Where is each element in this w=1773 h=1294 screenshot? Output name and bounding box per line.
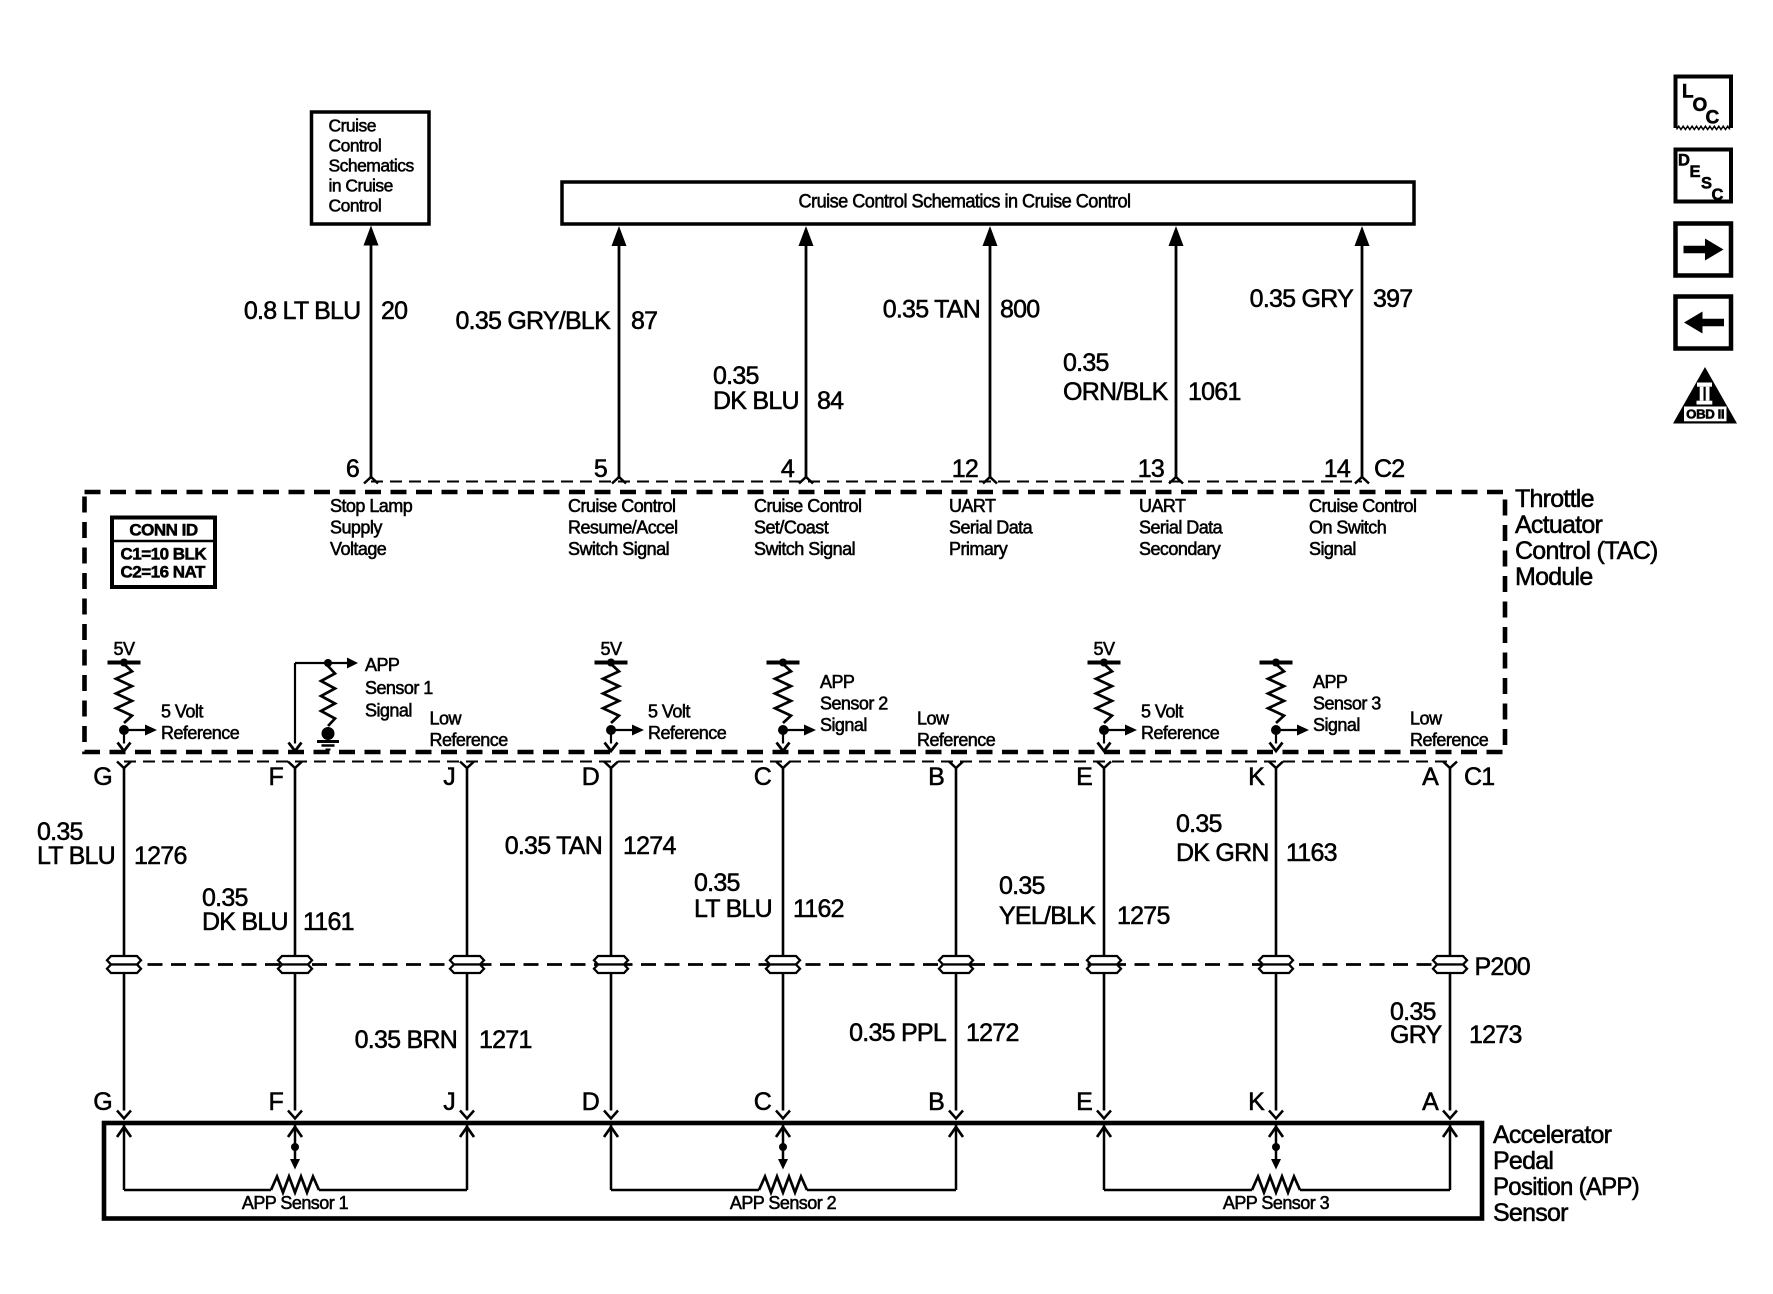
svg-text:0.35 GRY: 0.35 GRY — [1250, 285, 1354, 313]
svg-text:G: G — [93, 1088, 112, 1116]
svg-text:APP Sensor 3: APP Sensor 3 — [1223, 1193, 1330, 1213]
svg-text:in Cruise: in Cruise — [329, 176, 393, 196]
svg-text:Control: Control — [329, 136, 382, 156]
pin 6 function label: Stop Lamp Supply Voltage — [330, 496, 413, 559]
label: Low Reference (pin J) — [430, 709, 509, 751]
label: Low Reference (pin B) — [917, 709, 996, 751]
svg-text:Sensor 2: Sensor 2 — [820, 694, 888, 714]
svg-text:B: B — [928, 763, 944, 791]
svg-text:5V: 5V — [601, 639, 622, 659]
svg-text:A: A — [1422, 763, 1439, 791]
wire circuit 87 (0.35 GRY/BLK) pin 5 — [455, 226, 657, 484]
pin F fork (connector C1) — [288, 762, 302, 769]
connector C1 line (thin dashed) — [124, 761, 1450, 763]
resistor network: APP Sensor 3 Signal (internal) — [1260, 659, 1382, 752]
svg-text:On Switch: On Switch — [1309, 518, 1386, 538]
svg-text:6: 6 — [346, 455, 359, 483]
svg-text:Reference: Reference — [161, 723, 240, 743]
svg-text:5V: 5V — [1094, 639, 1115, 659]
svg-text:1163: 1163 — [1286, 839, 1337, 867]
svg-text:OBD II: OBD II — [1686, 408, 1724, 422]
svg-text:Reference: Reference — [1410, 730, 1489, 750]
wire circuit 1273 (0.35 GRY) pin A — [1390, 768, 1522, 1111]
svg-text:Signal: Signal — [1313, 715, 1360, 735]
icon: OBD II symbol (triangle with pillar) — [1673, 367, 1737, 424]
svg-text:APP: APP — [365, 655, 400, 675]
svg-text:S: S — [1701, 175, 1712, 193]
svg-text:F: F — [268, 763, 283, 791]
pin G fork (APP sensor connector) — [117, 1111, 131, 1119]
svg-text:397: 397 — [1373, 285, 1412, 313]
wire circuit 1161 (0.35 DK BLU) pin F — [202, 768, 354, 1111]
svg-text:1271: 1271 — [479, 1026, 532, 1054]
connector C2 line (thin dashed) — [371, 481, 1362, 483]
svg-text:F: F — [268, 1088, 283, 1116]
svg-text:Resume/Accel: Resume/Accel — [568, 518, 678, 538]
pin E fork (APP sensor connector) — [1097, 1111, 1111, 1119]
P200 in-line connector symbol on wire G — [107, 956, 141, 973]
pin B fork (APP sensor connector) — [949, 1111, 963, 1119]
resistor network: 5 Volt Reference pull-up (pin D) — [595, 639, 727, 751]
svg-text:DK BLU: DK BLU — [202, 908, 288, 936]
svg-text:C: C — [754, 763, 772, 791]
svg-text:C: C — [1712, 186, 1724, 204]
icon: DESC navigation box — [1676, 150, 1732, 205]
svg-text:Reference: Reference — [648, 723, 727, 743]
pin 14 function label: Cruise Control On Switch Signal — [1309, 496, 1416, 559]
pin A fork (APP sensor connector) — [1443, 1111, 1457, 1119]
APP Sensor 3 potentiometer — [1097, 1125, 1457, 1213]
svg-text:LT BLU: LT BLU — [37, 842, 115, 870]
svg-text:A: A — [1422, 1088, 1439, 1116]
svg-text:Secondary: Secondary — [1139, 539, 1221, 559]
svg-text:87: 87 — [631, 307, 657, 335]
svg-text:J: J — [443, 1088, 455, 1116]
icon: forward arrow box — [1676, 224, 1732, 276]
svg-text:Set/Coast: Set/Coast — [754, 518, 829, 538]
pass-through connector P200 (dashed line) — [124, 963, 1450, 966]
pin 5 function label: Cruise Control Resume/Accel Switch Signal — [568, 496, 678, 559]
svg-text:0.35 BRN: 0.35 BRN — [355, 1026, 457, 1054]
svg-text:D: D — [1678, 152, 1690, 170]
svg-text:Control: Control — [329, 196, 382, 216]
P200 in-line connector symbol on wire A — [1433, 956, 1467, 973]
svg-text:UART: UART — [1139, 496, 1186, 516]
pin C fork (connector C1) — [776, 762, 790, 769]
svg-text:Accelerator: Accelerator — [1493, 1121, 1612, 1149]
wire circuit 1271 (0.35 BRN) pin J — [355, 768, 532, 1111]
svg-text:0.35: 0.35 — [999, 872, 1045, 900]
CONN ID table (C1=10 BLK, C2=16 NAT) — [112, 518, 215, 588]
svg-text:Cruise Control Schematics in C: Cruise Control Schematics in Cruise Cont… — [799, 192, 1131, 213]
icon: LOC navigation box — [1676, 77, 1732, 130]
svg-text:Cruise: Cruise — [329, 116, 376, 136]
Throttle Actuator Control (TAC) Module dashed box — [85, 492, 1506, 752]
pin D fork (connector C1) — [604, 762, 618, 769]
label: Low Reference (pin A) — [1410, 709, 1489, 751]
resistor network: 5 Volt Reference pull-up (pin E) — [1088, 639, 1220, 751]
wire circuit 84 (0.35 DK BLU) pin 4 — [713, 226, 844, 484]
svg-text:5 Volt: 5 Volt — [1141, 702, 1183, 722]
svg-text:0.35: 0.35 — [1176, 810, 1222, 838]
label: Throttle Actuator Control (TAC) Module — [1515, 485, 1658, 591]
wire circuit 1272 (0.35 PPL) pin B — [849, 768, 1018, 1111]
svg-text:1061: 1061 — [1188, 378, 1241, 406]
pin 4 function label: Cruise Control Set/Coast Switch Signal — [754, 496, 861, 559]
svg-text:C2=16 NAT: C2=16 NAT — [121, 563, 207, 582]
svg-text:Pedal: Pedal — [1493, 1147, 1553, 1175]
pin 12 function label: UART Serial Data Primary — [949, 496, 1034, 559]
svg-text:B: B — [928, 1088, 944, 1116]
svg-text:0.35 TAN: 0.35 TAN — [505, 832, 602, 860]
svg-text:800: 800 — [1000, 296, 1039, 324]
svg-text:0.35: 0.35 — [713, 362, 759, 390]
svg-text:K: K — [1248, 763, 1265, 791]
svg-text:Control (TAC): Control (TAC) — [1515, 537, 1658, 565]
svg-text:Sensor: Sensor — [1493, 1199, 1568, 1227]
svg-text:GRY: GRY — [1390, 1021, 1443, 1049]
svg-text:E: E — [1076, 763, 1092, 791]
svg-text:Actuator: Actuator — [1515, 511, 1603, 539]
svg-text:APP: APP — [1313, 672, 1348, 692]
svg-text:Voltage: Voltage — [330, 539, 387, 559]
svg-text:0.8 LT BLU: 0.8 LT BLU — [244, 297, 361, 325]
pin A fork (connector C1) — [1443, 762, 1457, 769]
svg-text:5 Volt: 5 Volt — [648, 702, 690, 722]
svg-text:12: 12 — [952, 455, 978, 483]
svg-text:4: 4 — [781, 455, 795, 483]
svg-text:Serial Data: Serial Data — [1139, 518, 1224, 538]
svg-text:ORN/BLK: ORN/BLK — [1063, 378, 1169, 406]
svg-text:Supply: Supply — [330, 518, 382, 538]
svg-text:1276: 1276 — [134, 842, 187, 870]
svg-text:0.35 PPL: 0.35 PPL — [849, 1019, 947, 1047]
svg-text:C2: C2 — [1374, 455, 1404, 483]
svg-text:Cruise Control: Cruise Control — [1309, 496, 1416, 516]
svg-text:Serial Data: Serial Data — [949, 518, 1034, 538]
pin 13 function label: UART Serial Data Secondary — [1139, 496, 1224, 559]
resistor network: APP Sensor 2 Signal (internal) — [767, 659, 889, 752]
svg-text:0.35: 0.35 — [1063, 349, 1109, 377]
P200 in-line connector symbol on wire B — [939, 956, 973, 973]
wire circuit 1275 (0.35 YEL/BLK) pin E — [999, 768, 1170, 1111]
svg-text:APP Sensor 2: APP Sensor 2 — [730, 1193, 837, 1213]
P200 in-line connector symbol on wire F — [278, 956, 312, 973]
svg-text:DK GRN: DK GRN — [1176, 839, 1269, 867]
Accelerator Pedal Position (APP) Sensor box — [104, 1123, 1482, 1219]
APP Sensor 1 potentiometer — [117, 1125, 474, 1213]
svg-text:13: 13 — [1138, 455, 1164, 483]
pin C fork (APP sensor connector) — [776, 1111, 790, 1119]
box: Cruise Control Schematics in Cruise Control (destination, top-left) — [312, 112, 430, 224]
svg-text:1274: 1274 — [623, 832, 676, 860]
svg-text:1273: 1273 — [1469, 1021, 1522, 1049]
svg-text:Low: Low — [1410, 709, 1443, 729]
wire circuit 1162 (0.35 LT BLU) pin C — [694, 768, 844, 1111]
pin J fork (connector C1) — [460, 762, 474, 769]
svg-text:C1: C1 — [1464, 763, 1494, 791]
svg-text:D: D — [582, 763, 599, 791]
svg-text:1161: 1161 — [303, 908, 354, 936]
svg-text:D: D — [582, 1088, 599, 1116]
resistor network: 5 Volt Reference pull-up (pin G) — [108, 639, 240, 751]
svg-text:Reference: Reference — [1141, 723, 1220, 743]
svg-text:K: K — [1248, 1088, 1265, 1116]
label: Accelerator Pedal Position (APP) Sensor — [1493, 1121, 1639, 1227]
P200 in-line connector symbol on wire J — [450, 956, 484, 973]
svg-text:C: C — [1706, 108, 1720, 129]
pin J fork (APP sensor connector) — [460, 1111, 474, 1119]
svg-text:UART: UART — [949, 496, 996, 516]
svg-text:CONN ID: CONN ID — [129, 521, 197, 540]
icon: back arrow box — [1676, 297, 1732, 349]
APP Sensor 2 potentiometer — [604, 1125, 963, 1213]
resistor network: APP Sensor 1 Signal with ground (pin F) — [289, 655, 434, 751]
svg-text:Switch Signal: Switch Signal — [568, 539, 669, 559]
pin F fork (APP sensor connector) — [288, 1111, 302, 1119]
box: Cruise Control Schematics in Cruise Control (banner) — [562, 182, 1414, 224]
P200 in-line connector symbol on wire C — [766, 956, 800, 973]
svg-text:Primary: Primary — [949, 539, 1008, 559]
wire circuit 1274 (0.35 TAN) pin D — [505, 768, 677, 1111]
svg-text:0.35: 0.35 — [694, 869, 740, 897]
wire circuit 800 (0.35 TAN) pin 12 — [883, 226, 1040, 484]
svg-text:Reference: Reference — [430, 730, 509, 750]
wire circuit 1276 (0.35 LT BLU) pin G — [37, 768, 187, 1111]
svg-text:Stop Lamp: Stop Lamp — [330, 496, 413, 516]
P200 in-line connector symbol on wire D — [594, 956, 628, 973]
svg-text:Sensor 1: Sensor 1 — [365, 678, 433, 698]
svg-text:Cruise Control: Cruise Control — [568, 496, 675, 516]
svg-text:P200: P200 — [1475, 953, 1530, 981]
svg-text:APP Sensor 1: APP Sensor 1 — [242, 1193, 349, 1213]
svg-text:14: 14 — [1324, 455, 1351, 483]
svg-text:APP: APP — [820, 672, 855, 692]
svg-text:Signal: Signal — [1309, 539, 1356, 559]
svg-text:Cruise Control: Cruise Control — [754, 496, 861, 516]
svg-text:1162: 1162 — [793, 895, 844, 923]
svg-text:Schematics: Schematics — [329, 156, 415, 176]
svg-text:G: G — [93, 763, 112, 791]
wire circuit 397 (0.35 GRY) pin 14 — [1250, 226, 1413, 484]
svg-text:Signal: Signal — [820, 715, 867, 735]
svg-text:Throttle: Throttle — [1515, 485, 1594, 513]
svg-text:Signal: Signal — [365, 701, 412, 721]
pin E fork (connector C1) — [1097, 762, 1111, 769]
svg-text:C1=10 BLK: C1=10 BLK — [121, 545, 208, 564]
svg-text:Sensor 3: Sensor 3 — [1313, 694, 1381, 714]
svg-text:0.35 TAN: 0.35 TAN — [883, 296, 980, 324]
pin D fork (APP sensor connector) — [604, 1111, 618, 1119]
svg-text:5 Volt: 5 Volt — [161, 702, 203, 722]
svg-text:1275: 1275 — [1117, 902, 1170, 930]
svg-text:DK BLU: DK BLU — [713, 387, 799, 415]
svg-text:E: E — [1076, 1088, 1092, 1116]
svg-text:1272: 1272 — [966, 1019, 1019, 1047]
svg-text:0.35 GRY/BLK: 0.35 GRY/BLK — [455, 307, 611, 335]
P200 in-line connector symbol on wire E — [1087, 956, 1121, 973]
wire circuit 1061 (0.35 ORN/BLK) pin 13 — [1063, 226, 1241, 484]
svg-text:Low: Low — [430, 709, 463, 729]
pin B fork (connector C1) — [949, 762, 963, 769]
svg-text:84: 84 — [817, 387, 844, 415]
svg-text:E: E — [1690, 163, 1701, 181]
pin K fork (APP sensor connector) — [1269, 1111, 1283, 1119]
P200 in-line connector symbol on wire K — [1259, 956, 1293, 973]
svg-text:C: C — [754, 1088, 772, 1116]
pin G fork (connector C1) — [117, 762, 131, 769]
svg-text:YEL/BLK: YEL/BLK — [999, 902, 1096, 930]
svg-text:Low: Low — [917, 709, 950, 729]
svg-text:Module: Module — [1515, 563, 1593, 591]
svg-text:5: 5 — [594, 455, 607, 483]
wire circuit 1163 (0.35 DK GRN) pin K — [1176, 768, 1337, 1111]
wire circuit 20 (0.8 LT BLU) pin 6 — [244, 226, 407, 484]
svg-text:Switch Signal: Switch Signal — [754, 539, 855, 559]
pin K fork (connector C1) — [1269, 762, 1283, 769]
svg-text:J: J — [443, 763, 455, 791]
svg-text:5V: 5V — [114, 639, 135, 659]
svg-text:Position (APP): Position (APP) — [1493, 1173, 1639, 1201]
svg-text:LT BLU: LT BLU — [694, 895, 772, 923]
svg-text:Reference: Reference — [917, 730, 996, 750]
svg-text:20: 20 — [381, 297, 407, 325]
